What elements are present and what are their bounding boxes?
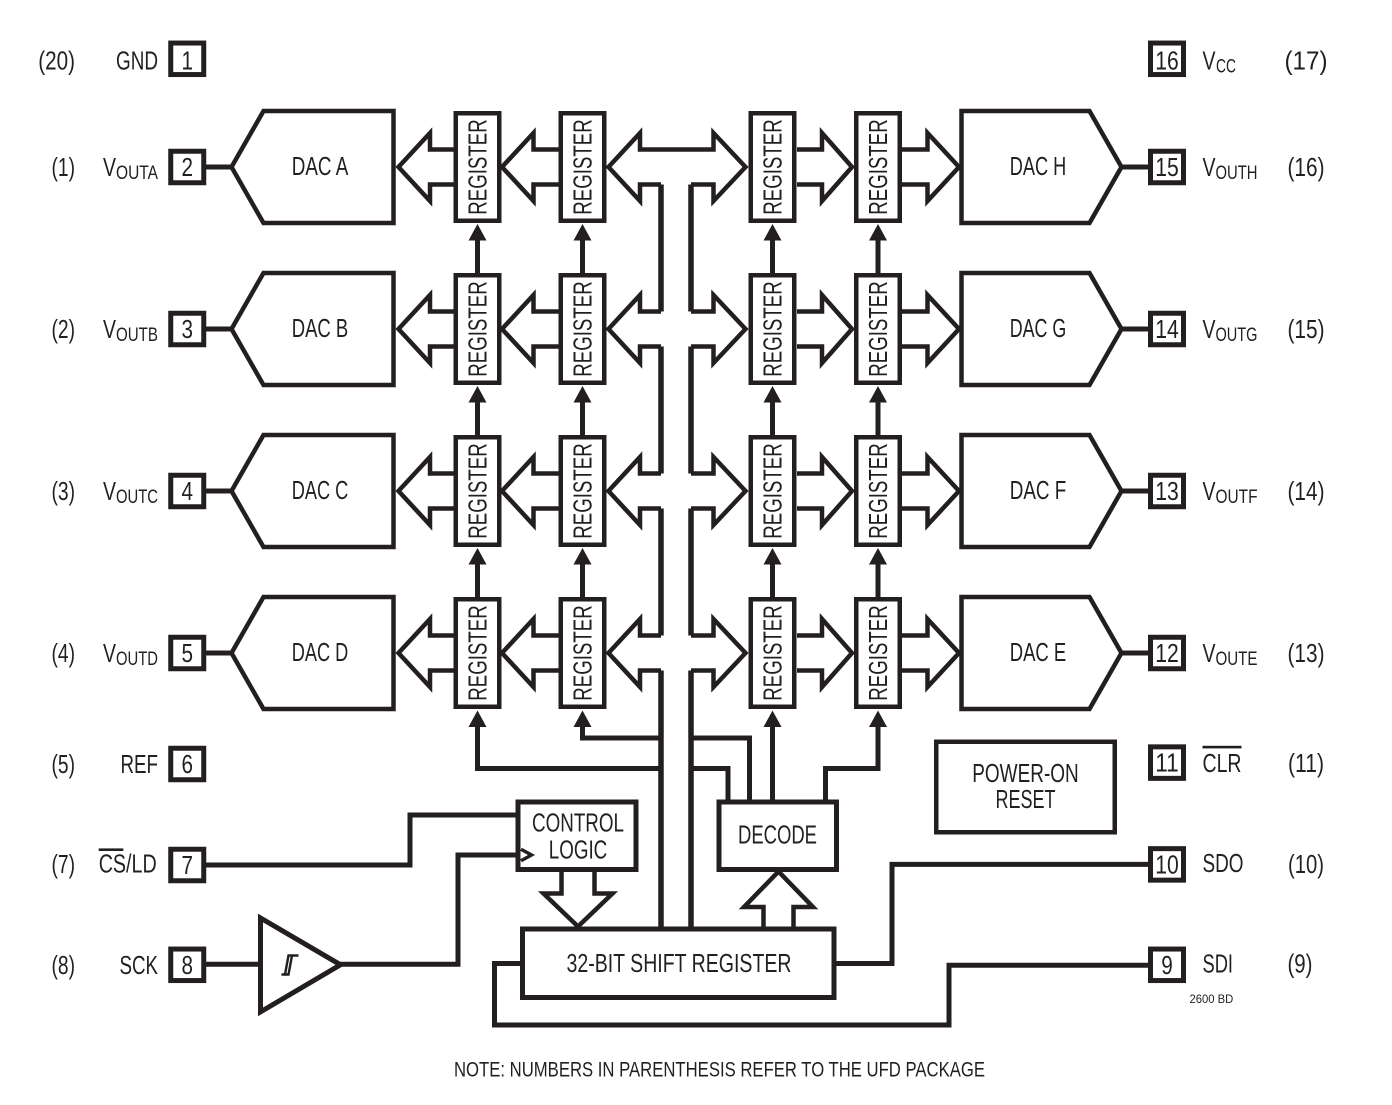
svg-text:REGISTER: REGISTER — [463, 281, 493, 377]
block arrow register col3 to col4 row D — [797, 619, 852, 687]
DAC E block — [962, 597, 1122, 709]
central bus right arrow row C — [691, 457, 746, 525]
wire pin 9 SDI to shift register input — [495, 964, 1149, 1026]
svg-text:(5): (5) — [52, 749, 76, 779]
svg-text:8: 8 — [182, 950, 194, 980]
pin 11 (CLR) package box — [1151, 747, 1184, 779]
svg-text:(17): (17) — [1285, 46, 1328, 76]
svg-text:32-BIT SHIFT REGISTER: 32-BIT SHIFT REGISTER — [567, 948, 792, 978]
block arrow register col2 to col1 row A — [502, 133, 559, 201]
register row B col1 (DAC register) — [456, 275, 500, 383]
register row D col2 (input register) — [561, 599, 605, 707]
wire bus to col1 register load (node under DAC D row) — [478, 724, 662, 769]
svg-text:(10): (10) — [1288, 849, 1324, 879]
pin 1 (GND) package box — [171, 43, 204, 75]
svg-text:CC: CC — [1216, 57, 1236, 78]
clock input caret on control logic — [521, 849, 532, 860]
svg-text:REGISTER: REGISTER — [863, 119, 893, 215]
svg-text:(2): (2) — [52, 314, 76, 344]
svg-text:REGISTER: REGISTER — [463, 443, 493, 539]
register row B col3 (input register) — [751, 275, 795, 383]
svg-text:DAC F: DAC F — [1010, 475, 1067, 505]
svg-text:V: V — [103, 476, 116, 506]
pin 12 (VOUTE) package box — [1151, 637, 1184, 669]
pin 9 (SDI) package box — [1151, 949, 1184, 981]
svg-text:3: 3 — [182, 314, 194, 344]
central bus double arrow row A (bus to input registers) — [609, 133, 746, 201]
register row C col3 (input register) — [751, 437, 795, 545]
svg-text:9: 9 — [1161, 950, 1173, 980]
svg-text:DAC H: DAC H — [1010, 151, 1067, 181]
wire DAC H output to pin 15 — [1121, 165, 1148, 170]
pin 13 (VOUTF) package box — [1151, 475, 1184, 507]
power-on reset block U-POR — [936, 742, 1115, 833]
central data bus right wall — [688, 185, 694, 928]
svg-text:SDO: SDO — [1203, 848, 1244, 878]
svg-text:OUTA: OUTA — [116, 163, 158, 184]
register row D col1 (DAC register) — [456, 599, 500, 707]
svg-text:REGISTER: REGISTER — [863, 605, 893, 701]
svg-text:(7): (7) — [52, 849, 76, 879]
svg-text:V: V — [1203, 638, 1216, 668]
register row D col4 (DAC register) — [856, 599, 900, 707]
svg-text:OUTC: OUTC — [116, 487, 158, 508]
central bus right arrow row D — [691, 619, 746, 687]
pin 6 (REF) package box — [171, 748, 204, 780]
svg-text:LOGIC: LOGIC — [549, 834, 608, 864]
svg-text:REGISTER: REGISTER — [758, 119, 788, 215]
svg-text:OUTG: OUTG — [1216, 325, 1258, 346]
decode block — [719, 802, 837, 870]
wire DAC G output to pin 14 — [1121, 327, 1148, 332]
block arrow shift register to decode — [744, 872, 813, 927]
load arrow row D to row C col4 — [869, 548, 887, 565]
central bus left arrow row C — [609, 457, 662, 525]
wire bus to col2 register load — [583, 724, 662, 738]
svg-text:2: 2 — [182, 152, 194, 182]
svg-text:OUTB: OUTB — [116, 325, 158, 346]
block arrow register to DAC A — [399, 133, 454, 201]
wire DAC F output to pin 13 — [1121, 489, 1148, 494]
block arrow register to DAC D — [399, 619, 454, 687]
svg-text:DAC D: DAC D — [292, 637, 349, 667]
svg-text:DAC A: DAC A — [292, 151, 349, 181]
register row B col4 (DAC register) — [856, 275, 900, 383]
svg-text:13: 13 — [1155, 476, 1179, 506]
pin 8 (SCK) package box — [171, 949, 204, 981]
svg-text:REF: REF — [121, 749, 159, 779]
svg-text:11: 11 — [1155, 748, 1179, 778]
svg-text:V: V — [1203, 314, 1216, 344]
svg-text:SCK: SCK — [120, 950, 159, 980]
svg-text:CS/LD: CS/LD — [99, 848, 157, 878]
load arrow row D to row C col3 — [764, 548, 782, 565]
svg-text:GND: GND — [116, 46, 158, 76]
block arrow control logic to shift register — [544, 872, 613, 927]
load arrow row D to row C col1 — [469, 548, 487, 565]
wire pin 3 to DAC B output — [206, 327, 232, 332]
svg-text:REGISTER: REGISTER — [568, 605, 598, 701]
svg-text:(8): (8) — [52, 950, 76, 980]
block arrow register col2 to col1 row D — [502, 619, 559, 687]
wire pin 8 to schmitt buffer input — [206, 962, 259, 967]
svg-text:V: V — [103, 314, 116, 344]
svg-text:(11): (11) — [1288, 748, 1324, 778]
central bus left arrow row B — [609, 295, 662, 363]
load arrow row B to row A col1 — [469, 224, 487, 241]
block arrow register col4 to DAC E — [902, 619, 960, 687]
svg-text:(13): (13) — [1288, 638, 1325, 668]
svg-text:(16): (16) — [1288, 152, 1325, 182]
load arrow row B to row A col3 — [764, 224, 782, 241]
load arrow row C to row B col3 — [764, 386, 782, 403]
svg-text:REGISTER: REGISTER — [463, 119, 493, 215]
svg-text:DAC B: DAC B — [292, 313, 349, 343]
svg-text:REGISTER: REGISTER — [568, 443, 598, 539]
pin 4 (VOUTC) package box — [171, 475, 204, 507]
DAC F block — [962, 435, 1122, 547]
wire bus to decode input A — [691, 738, 750, 800]
svg-text:12: 12 — [1155, 638, 1179, 668]
load arrow row B to row A col2 — [574, 224, 592, 241]
wire pin 2 to DAC A output — [206, 165, 232, 170]
register row C col1 (DAC register) — [456, 437, 500, 545]
svg-text:REGISTER: REGISTER — [863, 443, 893, 539]
svg-text:1: 1 — [182, 45, 194, 75]
svg-text:10: 10 — [1155, 849, 1179, 879]
pin 15 (VOUTH) package box — [1151, 151, 1184, 183]
svg-text:(3): (3) — [52, 476, 76, 506]
wire decode to col4 register load — [826, 724, 879, 800]
svg-text:7: 7 — [182, 850, 194, 880]
pin 2 (VOUTA) package box — [171, 151, 204, 183]
svg-text:OUTF: OUTF — [1216, 487, 1258, 508]
svg-text:V: V — [1203, 152, 1216, 182]
block arrow register to DAC C — [399, 457, 454, 525]
register row A col1 (DAC register) — [456, 113, 500, 221]
pin 7 (CS/LD) package box — [171, 849, 204, 881]
wire bus to decode input B — [691, 769, 728, 801]
svg-text:SDI: SDI — [1203, 949, 1234, 979]
register row A col2 (input register) — [561, 113, 605, 221]
block arrow register to DAC B — [399, 295, 454, 363]
svg-text:6: 6 — [182, 749, 194, 779]
register row D col3 (input register) — [751, 599, 795, 707]
wire pin 4 to DAC C output — [206, 489, 232, 494]
DAC D block — [232, 597, 394, 709]
svg-text:DAC E: DAC E — [1010, 637, 1067, 667]
svg-text:(1): (1) — [52, 152, 76, 182]
svg-text:OUTE: OUTE — [1216, 649, 1258, 670]
register row A col4 (DAC register) — [856, 113, 900, 221]
block arrow register col2 to col1 row C — [502, 457, 559, 525]
load arrow row D to row C col2 — [574, 548, 592, 565]
pin 10 (SDO) package box — [1151, 849, 1184, 881]
svg-text:(9): (9) — [1288, 949, 1313, 979]
svg-text:(4): (4) — [52, 638, 76, 668]
svg-text:V: V — [1203, 476, 1216, 506]
svg-text:4: 4 — [182, 476, 194, 506]
svg-text:REGISTER: REGISTER — [758, 443, 788, 539]
hysteresis symbol — [282, 956, 299, 975]
svg-text:(20): (20) — [38, 46, 75, 76]
block arrow register col3 to col4 row A — [797, 133, 852, 201]
pin 3 (VOUTB) package box — [171, 313, 204, 345]
pin 5 (VOUTD) package box — [171, 637, 204, 669]
DAC G block — [962, 273, 1122, 385]
svg-text:2600 BD: 2600 BD — [1190, 994, 1234, 1006]
svg-text:OUTH: OUTH — [1216, 163, 1258, 184]
control logic block — [518, 802, 636, 870]
svg-text:V: V — [103, 638, 116, 668]
svg-text:16: 16 — [1155, 45, 1179, 75]
register row B col2 (input register) — [561, 275, 605, 383]
register row A col3 (input register) — [751, 113, 795, 221]
svg-text:V: V — [1203, 46, 1216, 76]
32-bit shift register block — [523, 929, 835, 998]
register row C col4 (DAC register) — [856, 437, 900, 545]
wire pin 5 to DAC D output — [206, 651, 232, 656]
block arrow register col4 to DAC G — [902, 295, 960, 363]
block arrow register col2 to col1 row B — [502, 295, 559, 363]
svg-text:DAC C: DAC C — [292, 475, 349, 505]
pin 16 (VCC) package box — [1151, 43, 1184, 75]
svg-text:REGISTER: REGISTER — [568, 281, 598, 377]
central bus right arrow row B — [691, 295, 746, 363]
svg-text:OUTD: OUTD — [116, 649, 158, 670]
svg-text:5: 5 — [182, 638, 194, 668]
svg-text:REGISTER: REGISTER — [863, 281, 893, 377]
DAC H block — [962, 111, 1122, 223]
block arrow register col4 to DAC H — [902, 133, 960, 201]
svg-text:15: 15 — [1155, 152, 1179, 182]
svg-text:REGISTER: REGISTER — [758, 605, 788, 701]
load arrow row B to row A col4 — [869, 224, 887, 241]
svg-text:CLR: CLR — [1203, 748, 1242, 778]
wire schmitt buffer output to control logic clock — [341, 855, 517, 964]
DAC C block — [232, 435, 394, 547]
schmitt trigger clock buffer U-SCK — [261, 918, 341, 1012]
svg-text:(15): (15) — [1288, 314, 1325, 344]
wire decode to col3 register load — [770, 724, 775, 800]
svg-text:V: V — [103, 152, 116, 182]
wire pin 7 CS/LD to control logic — [206, 815, 516, 865]
svg-text:CONTROL: CONTROL — [532, 808, 624, 838]
svg-text:REGISTER: REGISTER — [758, 281, 788, 377]
wire DAC E output to pin 12 — [1121, 651, 1148, 656]
block arrow register col4 to DAC F — [902, 457, 960, 525]
pin 14 (VOUTG) package box — [1151, 313, 1184, 345]
load arrow row C to row B col1 — [469, 386, 487, 403]
DAC A block — [232, 111, 394, 223]
wire shift register to pin 10 SDO — [835, 864, 1148, 963]
block arrow register col3 to col4 row C — [797, 457, 852, 525]
central data bus left wall — [658, 185, 664, 928]
svg-text:(14): (14) — [1288, 476, 1325, 506]
register row C col2 (input register) — [561, 437, 605, 545]
svg-text:14: 14 — [1155, 314, 1179, 344]
svg-text:REGISTER: REGISTER — [568, 119, 598, 215]
central bus left arrow row D — [609, 619, 662, 687]
svg-text:DAC G: DAC G — [1010, 313, 1067, 343]
svg-text:NOTE: NUMBERS IN PARENTHESIS R: NOTE: NUMBERS IN PARENTHESIS REFER TO TH… — [454, 1059, 985, 1082]
svg-text:REGISTER: REGISTER — [463, 605, 493, 701]
load arrow row C to row B col2 — [574, 386, 592, 403]
svg-text:RESET: RESET — [996, 784, 1056, 814]
block arrow register col3 to col4 row B — [797, 295, 852, 363]
load arrow row C to row B col4 — [869, 386, 887, 403]
DAC B block — [232, 273, 394, 385]
svg-text:DECODE: DECODE — [738, 819, 817, 849]
